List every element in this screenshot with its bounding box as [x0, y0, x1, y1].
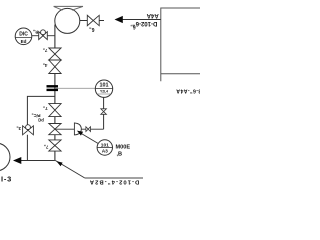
wire valve stub: [99, 20, 104, 22]
svg-text:I-3: I-3: [1, 174, 12, 183]
instrument bubble DIC: [15, 28, 32, 45]
bottom pipe: [85, 177, 143, 179]
svg-text:D-103-6”-A4A: D-103-6”-A4A: [176, 87, 200, 93]
svg-text:D-102-4”-B2A: D-102-4”-B2A: [89, 178, 140, 184]
svg-text:,B: ,B: [117, 152, 123, 158]
tank I-3 circle: [0, 143, 10, 171]
instrument tap line: [55, 87, 96, 89]
diagonal drain line: [55, 160, 84, 178]
svg-text:4„: 4„: [43, 63, 48, 68]
suction line with arrow: [20, 160, 55, 162]
svg-text:A4A: A4A: [146, 12, 159, 18]
pump P-1 circle: [55, 8, 80, 33]
valve B on main: [49, 124, 61, 130]
wire horn to riser: [81, 128, 103, 130]
wire pump to valve: [80, 20, 88, 22]
instrument bubble FI 101: [95, 80, 112, 97]
valve 7c on main: [49, 140, 61, 146]
valve 7a (vertical gate pair upper): [49, 48, 61, 54]
wire pipe to box: [122, 19, 161, 21]
wire bubble to valve R: [32, 35, 39, 37]
tiny valve x on wire: [86, 127, 88, 132]
arrowhead flow left: [115, 16, 123, 23]
tiny valve on riser: [101, 109, 107, 112]
svg-text:R„: R„: [33, 29, 38, 34]
orifice plate flanges: [47, 85, 59, 87]
valve V6 (gate, horizontal): [87, 15, 93, 25]
arrowhead into tank: [13, 157, 21, 164]
wire valve R to main: [47, 35, 55, 37]
arrowhead into horn: [77, 131, 83, 136]
svg-text:7„: 7„: [43, 106, 48, 111]
svg-text:101: 101: [100, 82, 109, 88]
instrument bubble 101/A3: [97, 140, 112, 155]
valve 4a (vertical gate pair lower): [49, 60, 61, 67]
svg-text:Dd: Dd: [38, 117, 44, 122]
horn / silencer: [74, 123, 81, 135]
svg-text:6„: 6„: [130, 23, 136, 29]
svg-text:Ed: Ed: [21, 39, 27, 44]
riser to bubble 101: [103, 97, 105, 129]
main vertical pipe: [54, 25, 56, 161]
wire to horn: [55, 128, 75, 130]
valve 3 (globe w/ actuator, left branch): [23, 126, 28, 135]
signal diagonal to bubble A3: [81, 133, 99, 144]
svg-text:3„: 3„: [16, 126, 21, 131]
valve 7b on main: [49, 104, 61, 111]
svg-text:DIC: DIC: [19, 32, 28, 38]
left branch wire: [27, 96, 55, 160]
svg-text:7„: 7„: [44, 144, 49, 149]
svg-text:A3: A3: [102, 149, 108, 155]
svg-text:M00E: M00E: [116, 144, 131, 150]
svg-text:Y2L4: Y2L4: [100, 89, 108, 93]
valve R (globe w/ round actuator): [39, 32, 43, 40]
pump base plate (rotated): [54, 6, 83, 10]
svg-text:101: 101: [101, 142, 109, 148]
svg-text:7„: 7„: [43, 48, 48, 53]
equipment box E-1 (top right, clipped): [161, 8, 205, 81]
svg-text:6„: 6„: [89, 26, 95, 32]
arrowhead on diagonal: [56, 161, 62, 166]
